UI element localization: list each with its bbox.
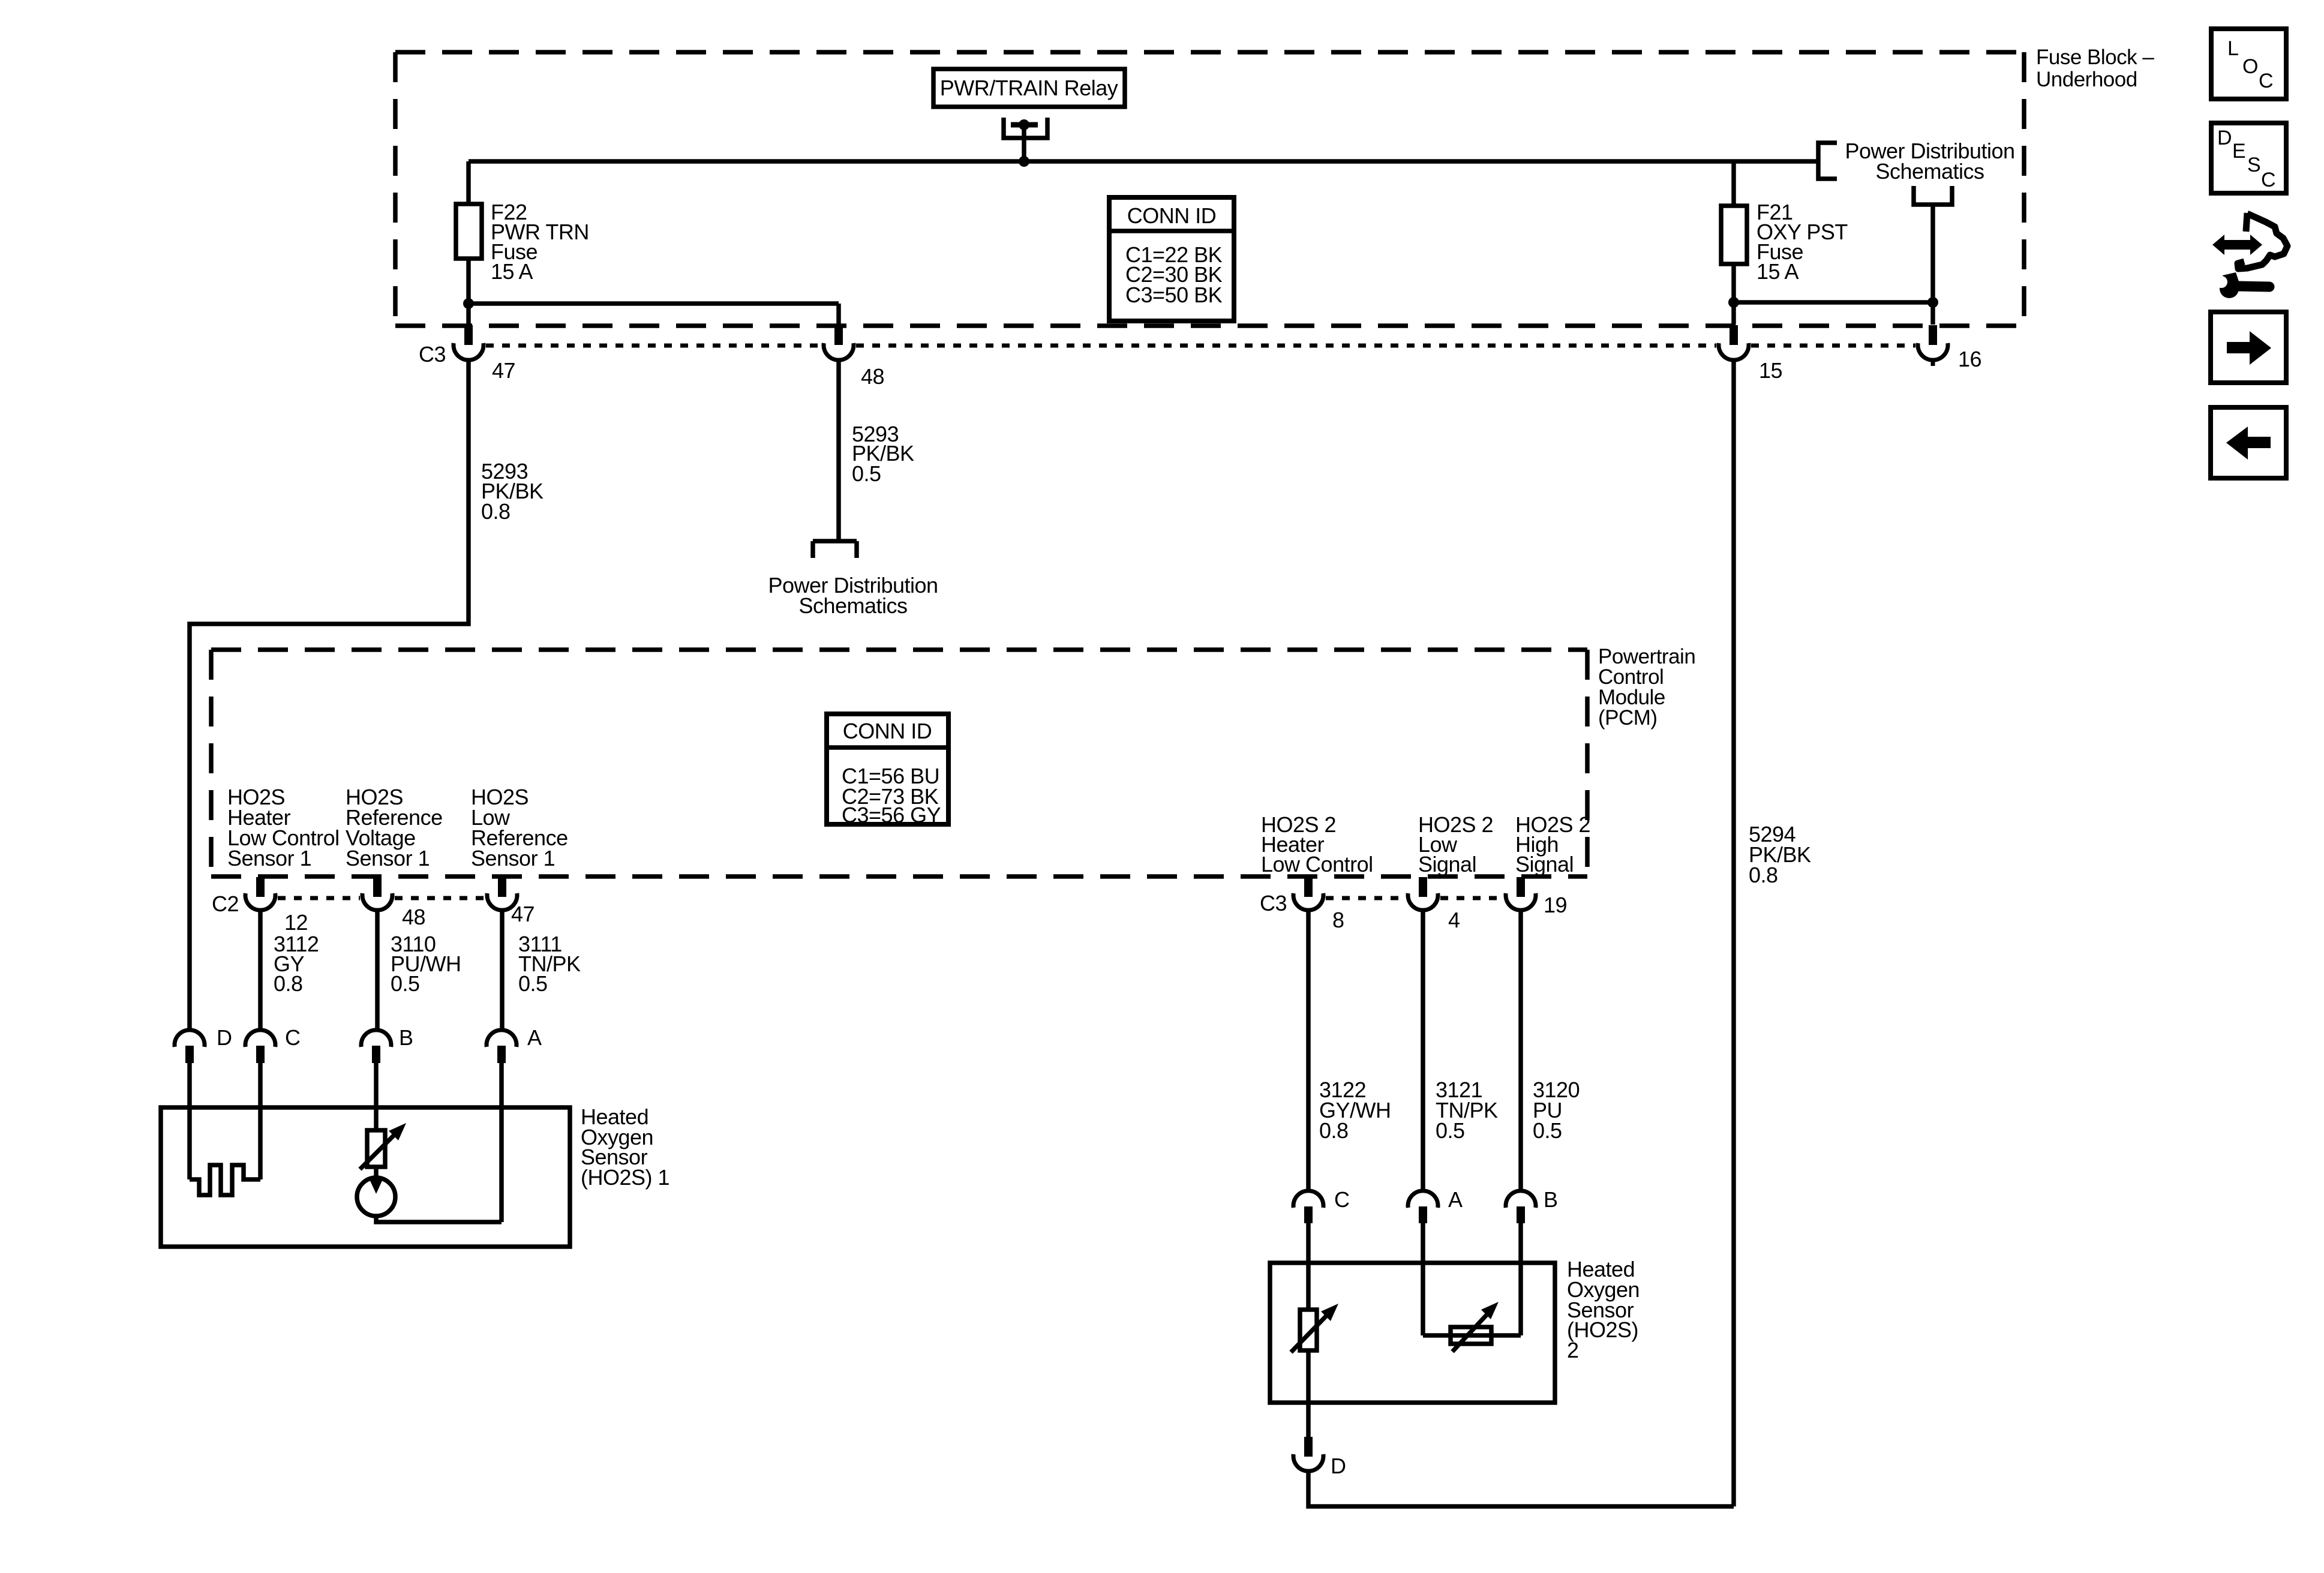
- svg-text:Signal: Signal: [1418, 852, 1476, 876]
- svg-text:A: A: [1448, 1187, 1463, 1212]
- svg-text:16: 16: [1958, 347, 1981, 371]
- svg-text:48: 48: [861, 364, 884, 389]
- svg-text:Schematics: Schematics: [798, 593, 907, 618]
- svg-text:L: L: [2227, 37, 2239, 60]
- svg-text:C: C: [1334, 1187, 1350, 1212]
- svg-text:0.8: 0.8: [481, 499, 511, 524]
- svg-text:0.8: 0.8: [274, 971, 303, 996]
- svg-text:(PCM): (PCM): [1598, 706, 1658, 730]
- svg-text:19: 19: [1544, 893, 1567, 917]
- svg-text:0.5: 0.5: [391, 971, 420, 996]
- svg-text:S: S: [2247, 154, 2261, 176]
- svg-text:(HO2S) 1: (HO2S) 1: [581, 1165, 669, 1190]
- svg-text:Fuse Block –: Fuse Block –: [2036, 46, 2154, 69]
- svg-text:C3: C3: [1260, 891, 1287, 915]
- svg-text:CONN ID: CONN ID: [1127, 203, 1217, 228]
- svg-text:B: B: [1544, 1187, 1558, 1212]
- svg-text:0.8: 0.8: [1749, 863, 1778, 887]
- svg-text:O: O: [2242, 55, 2258, 78]
- svg-text:Schematics: Schematics: [1875, 159, 1984, 184]
- svg-text:C: C: [2261, 169, 2276, 191]
- svg-text:4: 4: [1448, 908, 1460, 932]
- svg-text:8: 8: [1332, 908, 1344, 932]
- svg-text:Underhood: Underhood: [2036, 68, 2137, 91]
- svg-text:Sensor 1: Sensor 1: [227, 846, 311, 870]
- svg-text:15 A: 15 A: [491, 259, 533, 284]
- svg-text:0.5: 0.5: [518, 971, 548, 996]
- svg-text:47: 47: [492, 358, 515, 383]
- svg-text:2: 2: [1567, 1338, 1579, 1362]
- svg-text:C: C: [2259, 70, 2274, 92]
- svg-text:D: D: [2217, 127, 2232, 149]
- svg-text:12: 12: [284, 910, 308, 935]
- svg-text:A: A: [527, 1025, 542, 1050]
- svg-text:0.5: 0.5: [1533, 1118, 1562, 1143]
- svg-text:Low Control: Low Control: [1261, 852, 1373, 876]
- svg-text:Signal: Signal: [1515, 852, 1574, 876]
- svg-text:15 A: 15 A: [1756, 259, 1799, 284]
- svg-text:E: E: [2232, 140, 2246, 163]
- svg-text:47: 47: [511, 902, 535, 926]
- svg-text:C3: C3: [419, 342, 446, 367]
- svg-text:C3=56 GY: C3=56 GY: [842, 803, 941, 827]
- svg-text:C: C: [285, 1025, 301, 1050]
- svg-text:0.8: 0.8: [1319, 1118, 1349, 1143]
- svg-text:PWR/TRAIN Relay: PWR/TRAIN Relay: [940, 76, 1118, 100]
- svg-text:D: D: [217, 1025, 232, 1050]
- svg-text:D: D: [1331, 1454, 1346, 1478]
- svg-text:0.5: 0.5: [852, 461, 881, 486]
- svg-text:C3=50 BK: C3=50 BK: [1125, 283, 1223, 307]
- svg-text:Sensor 1: Sensor 1: [471, 846, 555, 870]
- svg-text:CONN ID: CONN ID: [843, 719, 932, 743]
- svg-text:15: 15: [1759, 358, 1782, 383]
- svg-text:48: 48: [402, 905, 425, 929]
- svg-text:0.5: 0.5: [1436, 1118, 1465, 1143]
- svg-text:C2: C2: [212, 891, 239, 916]
- svg-text:B: B: [399, 1025, 413, 1050]
- svg-text:Sensor 1: Sensor 1: [346, 846, 430, 870]
